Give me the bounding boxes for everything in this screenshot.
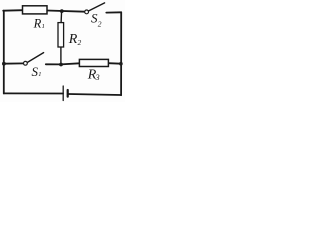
svg-text:R: R: [68, 32, 78, 47]
svg-text:2: 2: [78, 38, 82, 47]
svg-text:2: 2: [98, 20, 102, 29]
svg-text:1: 1: [38, 71, 41, 78]
svg-text:1: 1: [42, 23, 45, 30]
svg-text:R: R: [33, 17, 42, 31]
svg-text:3: 3: [95, 73, 100, 82]
